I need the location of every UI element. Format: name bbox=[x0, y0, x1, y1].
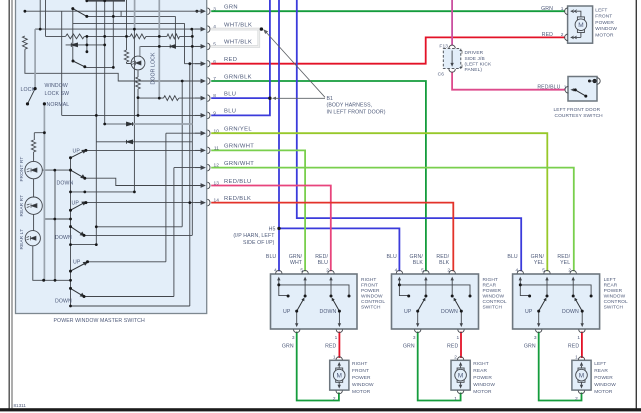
svg-text:81311: 81311 bbox=[14, 403, 27, 408]
node switch A up contact bbox=[84, 149, 87, 152]
svg-text:M: M bbox=[336, 372, 341, 379]
wire GRN pin3 to LF motor pin1 bbox=[211, 10, 565, 12]
svg-text:2: 2 bbox=[454, 355, 457, 361]
svg-text:SWITCH: SWITCH bbox=[604, 305, 624, 311]
switch arm UP bbox=[418, 300, 425, 312]
wire RED pin6 to LF motor pin2 bbox=[211, 37, 565, 63]
switch arm bbox=[575, 90, 586, 96]
svg-text:BLU: BLU bbox=[224, 109, 236, 115]
contact dots bbox=[588, 80, 591, 83]
wire vertical x104.7 bbox=[104, 1, 106, 124]
node pin3 row junctions bbox=[24, 10, 27, 13]
arrowheads down bbox=[295, 323, 341, 327]
svg-text:SIDE OF I/P): SIDE OF I/P) bbox=[243, 240, 275, 246]
svg-text:LEFT FRONT DOOR: LEFT FRONT DOOR bbox=[554, 107, 601, 113]
thick gray wire row y124 bbox=[105, 123, 193, 125]
pin 1 arc bbox=[565, 86, 568, 93]
node pin8 row junctions bbox=[137, 96, 140, 99]
motor M internal wiring bbox=[571, 11, 581, 37]
switch arm window-lock bbox=[28, 89, 36, 104]
svg-text:SWITCH: SWITCH bbox=[483, 305, 503, 311]
wire row y23.4 bbox=[73, 22, 185, 24]
diode D2 bbox=[170, 45, 175, 49]
LEFT FRONT POWER WINDOW MOTOR box bbox=[568, 6, 593, 43]
node pin4 row junctions bbox=[39, 28, 42, 31]
pin 14 arrow and arc bbox=[195, 202, 203, 204]
svg-text:(I/P HARN, LEFT: (I/P HARN, LEFT bbox=[233, 233, 275, 239]
wire circle chain x33.6 bbox=[34, 133, 45, 231]
resistor RA bbox=[66, 34, 85, 39]
wire GRN RR switch pin3 to RR motor pin1 bbox=[418, 332, 461, 401]
svg-text:REAR LT: REAR LT bbox=[19, 229, 25, 250]
wire GRN LR switch pin3 to LR motor pin2 bbox=[539, 332, 582, 401]
node switch B2 pivot and row227 junction bbox=[69, 225, 72, 228]
switch arm LF-up pivot column bbox=[72, 9, 74, 61]
svg-text:POWER: POWER bbox=[473, 375, 492, 381]
pin 7 arrow and arc bbox=[195, 80, 203, 82]
svg-text:REAR RT: REAR RT bbox=[19, 195, 25, 217]
pin arcs top bbox=[517, 270, 576, 273]
pin shafts bbox=[279, 280, 340, 325]
switch arm B up bbox=[71, 203, 84, 210]
diode D4 bbox=[127, 140, 133, 144]
svg-text:BLU: BLU bbox=[266, 254, 277, 260]
switch arm B down bbox=[71, 227, 82, 235]
power window master switch box bbox=[16, 0, 207, 314]
B1 arrow to BLU node bbox=[275, 97, 325, 99]
pin 1 arc bbox=[565, 8, 568, 15]
svg-text:RED: RED bbox=[447, 344, 458, 350]
wire stub x175.4 bbox=[174, 16, 176, 44]
wire GRN/YEL pin10 to LR switch pin5 bbox=[211, 133, 547, 271]
svg-text:POWER: POWER bbox=[352, 375, 371, 381]
wire left top corner bbox=[45, 0, 47, 36]
wire nub x86.9 bbox=[86, 36, 88, 51]
node switch C pivot bbox=[69, 270, 72, 273]
motor brushes bbox=[577, 17, 584, 20]
LED rear-lt bbox=[25, 231, 40, 246]
svg-text:WINDOW: WINDOW bbox=[352, 382, 374, 388]
svg-text:4: 4 bbox=[395, 268, 398, 274]
svg-text:3: 3 bbox=[534, 335, 537, 341]
wire row y226.8 bbox=[96, 81, 182, 227]
wire pin6 internal row bbox=[185, 23, 205, 63]
wire row y244.6 bbox=[71, 244, 97, 246]
arrowheads up bbox=[277, 277, 333, 281]
wire RED RF switch pin1 to RF motor pin1 bbox=[338, 332, 340, 358]
svg-text:BLK: BLK bbox=[413, 260, 424, 266]
arrow through J/B bbox=[451, 51, 453, 65]
svg-text:WINDOW: WINDOW bbox=[473, 382, 495, 388]
wire diode row y44.9 bbox=[66, 44, 105, 46]
svg-text:FRONT: FRONT bbox=[352, 368, 369, 374]
svg-text:MOTOR: MOTOR bbox=[352, 389, 371, 395]
wire circle3 row y280.3 bbox=[33, 246, 71, 281]
svg-text:WINDOW: WINDOW bbox=[361, 294, 383, 300]
svg-text:1: 1 bbox=[333, 355, 336, 361]
pin 2 arc bbox=[565, 34, 568, 41]
pin 1 arrows bbox=[571, 10, 577, 13]
pin 13 arrow and arc bbox=[195, 185, 203, 187]
wire GRN/WHT pin12 to LR switch pin2 bbox=[211, 168, 574, 272]
svg-text:2: 2 bbox=[561, 32, 564, 38]
RIGHT FRONT POWER WINDOW MOTOR box bbox=[330, 360, 349, 390]
node row191 junctions bbox=[69, 191, 72, 194]
svg-text:DOWN: DOWN bbox=[57, 181, 74, 187]
switch arm LF down bbox=[73, 61, 85, 67]
node resistor row junctions bbox=[86, 35, 89, 38]
resistor left of door-lock LED bbox=[124, 0, 131, 64]
arrow to pin 1 bbox=[572, 89, 575, 91]
node switch B pivot bbox=[69, 209, 72, 212]
node H5 junction on BLU bbox=[277, 227, 280, 230]
svg-text:1: 1 bbox=[454, 396, 457, 402]
svg-text:UP: UP bbox=[283, 309, 291, 315]
pin shafts bbox=[520, 280, 582, 325]
node switch C2 pivot and down contact bbox=[69, 287, 72, 290]
svg-text:RED: RED bbox=[568, 344, 579, 350]
resistor RG vertical bbox=[136, 71, 140, 116]
svg-text:B1: B1 bbox=[327, 96, 334, 102]
svg-text:GRN: GRN bbox=[403, 344, 415, 350]
svg-text:PANEL): PANEL) bbox=[465, 67, 483, 73]
pin 3 arrow and arc bbox=[195, 10, 203, 12]
svg-text:GRN/WHT: GRN/WHT bbox=[224, 144, 254, 150]
svg-text:UP: UP bbox=[72, 200, 80, 206]
node window lock switch points bbox=[34, 87, 37, 90]
svg-text:GRN: GRN bbox=[282, 344, 294, 350]
svg-text:M: M bbox=[458, 372, 463, 379]
wire pin4 internal row bbox=[35, 0, 204, 29]
wire pin13 internal step bbox=[85, 178, 205, 185]
arrowheads up bbox=[398, 277, 454, 281]
wire BLU vertical x269.9 to top bbox=[269, 0, 271, 115]
pin shafts bbox=[399, 280, 461, 325]
node normal-wire corner junction bbox=[43, 131, 46, 134]
svg-text:RIGHT: RIGHT bbox=[361, 277, 376, 283]
wire WHT/BLK pin4 run bbox=[211, 28, 261, 31]
wire RED RR switch pin1 to RR motor pin2 bbox=[460, 332, 462, 358]
wire RED/BLU C6 to courtesy switch pin1 bbox=[452, 72, 565, 90]
svg-text:DOWN: DOWN bbox=[55, 299, 72, 305]
svg-text:YEL: YEL bbox=[560, 260, 570, 266]
svg-text:M: M bbox=[578, 22, 583, 29]
svg-text:GRN/WHT: GRN/WHT bbox=[224, 161, 254, 167]
wire row y306 bbox=[71, 64, 190, 306]
node LED1 row junctions bbox=[53, 169, 56, 172]
pin 6 arrow and arc bbox=[195, 63, 203, 65]
switch arm DOWN bbox=[455, 300, 462, 312]
svg-text:GRN: GRN bbox=[524, 344, 536, 350]
svg-text:3: 3 bbox=[292, 335, 295, 341]
dots top rows bbox=[85, 0, 88, 2]
diode D1 bbox=[71, 43, 77, 47]
node row244 junctions bbox=[69, 243, 72, 246]
node switch A down contact bbox=[83, 177, 86, 180]
svg-text:2: 2 bbox=[568, 268, 571, 274]
svg-text:5: 5 bbox=[300, 268, 303, 274]
svg-text:1: 1 bbox=[564, 84, 567, 90]
page frame left line 2 bbox=[11, 0, 13, 409]
B1 arrow to WHT/BLK node bbox=[266, 32, 325, 97]
wire pin14 internal row bbox=[86, 202, 204, 204]
wire circle1 row y170 bbox=[43, 169, 71, 171]
resistor RF vertical bbox=[31, 140, 35, 152]
wire row y191.9 bbox=[71, 29, 135, 192]
wire BLU pin9 run bbox=[211, 114, 271, 116]
right pin arc bbox=[597, 78, 600, 85]
svg-text:4: 4 bbox=[516, 268, 519, 274]
pin 12 arrow and arc bbox=[195, 167, 203, 169]
svg-text:YEL: YEL bbox=[534, 260, 544, 266]
switch arm LF up bbox=[73, 9, 87, 17]
diode D3 bbox=[127, 122, 133, 126]
svg-text:WINDOW: WINDOW bbox=[45, 83, 68, 89]
wire contact row y16.5 bbox=[87, 11, 176, 16]
wire vertical x96.3 bbox=[95, 1, 97, 245]
svg-text:COURTESY SWITCH: COURTESY SWITCH bbox=[555, 113, 604, 119]
wire pin5 internal row bbox=[140, 45, 205, 47]
svg-text:GRN/BLK: GRN/BLK bbox=[224, 74, 252, 80]
pin F13 arc bbox=[449, 45, 455, 48]
wire pivot column x70.5 bbox=[70, 158, 72, 306]
wire contact row y67.4 bbox=[85, 1, 114, 68]
node switch B down contact bbox=[83, 234, 86, 237]
svg-text:1: 1 bbox=[575, 355, 578, 361]
pin 8 arrow and arc bbox=[195, 97, 203, 99]
svg-text:POWER: POWER bbox=[361, 288, 380, 294]
page frame bottom bar bbox=[0, 408, 641, 411]
wire row y296.5 bbox=[84, 296, 174, 298]
svg-text:BLU: BLU bbox=[507, 254, 518, 260]
svg-text:LEFT: LEFT bbox=[604, 277, 616, 283]
svg-text:MOTOR: MOTOR bbox=[473, 389, 492, 395]
svg-text:DOOR LOCK: DOOR LOCK bbox=[151, 52, 157, 84]
motor circle M bbox=[575, 19, 587, 31]
wire BLU pin8 run bbox=[211, 97, 269, 99]
arrowheads down bbox=[537, 323, 584, 327]
pin 10 arrow and arc bbox=[195, 132, 203, 134]
wire RED/BLK pin14 to RR switch pin2 bbox=[211, 203, 453, 272]
switch arm UP bbox=[297, 300, 304, 312]
node LED3 row junctions bbox=[42, 279, 45, 282]
pin arcs bottom bbox=[294, 329, 343, 332]
wire left loop y73.3 bbox=[25, 49, 205, 81]
pin 11 arrow and arc bbox=[195, 149, 203, 151]
arrowheads down bbox=[416, 323, 463, 327]
contact and pivot dots bbox=[398, 283, 401, 286]
svg-text:UP: UP bbox=[404, 309, 412, 315]
LEFT REAR POWER WINDOW CONTROL SWITCH box bbox=[513, 274, 600, 329]
svg-text:RED: RED bbox=[325, 344, 336, 350]
wire GRN/WHT pin11 to RF switch pin5 bbox=[211, 150, 305, 271]
node pin9 row junctions bbox=[95, 114, 98, 117]
svg-text:REAR: REAR bbox=[483, 283, 497, 289]
node row219 junctions bbox=[53, 218, 56, 221]
wire WHT/BLK pin5 run joining pin4 bbox=[211, 30, 259, 46]
internal rail bbox=[399, 285, 470, 296]
RIGHT REAR POWER WINDOW MOTOR box bbox=[451, 360, 470, 390]
thick gray wire LOCK bbox=[34, 29, 36, 89]
RIGHT FRONT POWER WINDOW CONTROL SWITCH box bbox=[271, 274, 358, 329]
arrowheads up bbox=[519, 277, 575, 281]
wire pin3 internal row bbox=[25, 10, 205, 12]
svg-text:REAR: REAR bbox=[604, 283, 618, 289]
wire RED LR switch pin1 to LR motor pin1 bbox=[581, 332, 583, 358]
svg-text:M: M bbox=[579, 372, 584, 379]
svg-text:RED: RED bbox=[224, 57, 237, 63]
svg-text:WINDOW: WINDOW bbox=[483, 294, 505, 300]
svg-text:LOCK: LOCK bbox=[21, 87, 36, 93]
svg-text:DRIVER: DRIVER bbox=[465, 50, 484, 56]
resistor RD bbox=[164, 96, 179, 101]
page frame right line bbox=[635, 0, 637, 409]
svg-text:LOCK SW: LOCK SW bbox=[45, 91, 70, 97]
switch arm A up bbox=[71, 151, 84, 158]
svg-text:POWER: POWER bbox=[604, 288, 623, 294]
resistor RB bbox=[130, 34, 146, 39]
svg-text:RED/BLK: RED/BLK bbox=[224, 196, 251, 202]
svg-text:2: 2 bbox=[575, 396, 578, 402]
svg-text:LEFT: LEFT bbox=[595, 7, 607, 13]
wire magenta F13 feed from top bbox=[451, 0, 453, 46]
svg-text:F13: F13 bbox=[439, 43, 448, 49]
resistor RC bbox=[167, 34, 180, 39]
svg-text:(LEFT KICK: (LEFT KICK bbox=[465, 61, 492, 67]
svg-text:C6: C6 bbox=[438, 72, 445, 78]
svg-text:POWER: POWER bbox=[594, 375, 613, 381]
svg-text:DOWN: DOWN bbox=[320, 309, 337, 315]
svg-text:UP: UP bbox=[73, 259, 81, 265]
svg-text:REAR: REAR bbox=[473, 368, 487, 374]
svg-text:1: 1 bbox=[335, 335, 338, 341]
switch arm UP bbox=[539, 300, 546, 312]
svg-text:CONTROL: CONTROL bbox=[483, 299, 507, 305]
svg-text:RIGHT: RIGHT bbox=[473, 361, 488, 367]
svg-text:WINDOW: WINDOW bbox=[595, 26, 617, 32]
LED rear-rt bbox=[25, 197, 42, 214]
svg-text:DOWN: DOWN bbox=[55, 235, 72, 241]
svg-text:LEFT: LEFT bbox=[594, 361, 606, 367]
node row306 junction bbox=[69, 305, 72, 308]
wire BLU vertical x279 to LF-door H5 and RF switch pin4 bbox=[278, 0, 280, 271]
svg-text:WHT/BLK: WHT/BLK bbox=[224, 40, 252, 46]
thick gray wire NORMAL bbox=[43, 104, 45, 280]
svg-text:BLU: BLU bbox=[318, 260, 329, 266]
pin arcs top bbox=[276, 270, 335, 273]
pin 2 arrows bbox=[571, 36, 577, 39]
wire pin11 internal row bbox=[86, 149, 204, 151]
pin 4 arrow and arc bbox=[195, 28, 203, 30]
svg-text:POWER WINDOW MASTER SWITCH: POWER WINDOW MASTER SWITCH bbox=[54, 318, 146, 324]
svg-text:GRN: GRN bbox=[541, 6, 553, 12]
svg-text:FRONT RT: FRONT RT bbox=[19, 157, 25, 182]
svg-text:RED/BLU: RED/BLU bbox=[224, 179, 252, 185]
thick gray wire vertical x134.6 bbox=[134, 0, 136, 29]
LEFT FRONT DOOR COURTESY SWITCH box bbox=[568, 77, 597, 102]
node LF-up switch contacts bbox=[71, 7, 74, 10]
svg-text:WHT/BLK: WHT/BLK bbox=[224, 22, 252, 28]
wire pin12 internal corner bbox=[88, 168, 205, 297]
node pin7 row junction bbox=[181, 80, 184, 83]
node B1 junction on BLU bbox=[268, 97, 271, 100]
svg-text:FRONT: FRONT bbox=[361, 283, 378, 289]
wire vertical to pin9 corner bbox=[61, 11, 63, 115]
pin 9 arrow and arc bbox=[195, 114, 203, 116]
node diode row junctions bbox=[86, 44, 89, 47]
svg-text:(BODY HARNESS,: (BODY HARNESS, bbox=[327, 103, 373, 109]
pin C6 arc bbox=[449, 69, 455, 72]
contact and pivot dots bbox=[519, 283, 522, 286]
svg-text:2: 2 bbox=[447, 268, 450, 274]
svg-text:DOWN: DOWN bbox=[562, 309, 579, 315]
svg-text:2: 2 bbox=[326, 268, 329, 274]
wire GRN/BLK pin7 to RR switch pin5 bbox=[211, 81, 426, 271]
wire RED/BLU pin13 to RF switch pin2 bbox=[211, 186, 331, 272]
pin arcs bottom bbox=[536, 329, 586, 332]
svg-text:REAR: REAR bbox=[594, 368, 608, 374]
svg-text:RED/BLU: RED/BLU bbox=[537, 84, 560, 90]
wire pin8 internal row with resistor bbox=[138, 97, 204, 99]
pin 5 arrow and arc bbox=[195, 45, 203, 47]
svg-text:H5: H5 bbox=[269, 226, 276, 232]
node gray row junction bbox=[103, 123, 106, 126]
thick gray wire vertical x159.3 bbox=[158, 0, 160, 98]
resistor RE vertical bbox=[23, 36, 28, 49]
svg-text:RIGHT: RIGHT bbox=[483, 277, 498, 283]
wire row y219 bbox=[44, 170, 70, 280]
wire BLU H5 branch to RR switch pin4 bbox=[279, 228, 399, 271]
svg-text:RED: RED bbox=[542, 32, 553, 38]
svg-text:3: 3 bbox=[413, 335, 416, 341]
svg-text:1: 1 bbox=[561, 6, 564, 12]
svg-text:4: 4 bbox=[274, 268, 277, 274]
wire row y141.8 bbox=[96, 141, 192, 143]
node switch A pivot bbox=[69, 156, 72, 159]
pin arcs bottom bbox=[415, 329, 465, 332]
svg-text:UP: UP bbox=[525, 309, 533, 315]
svg-text:SWITCH: SWITCH bbox=[361, 305, 381, 311]
svg-text:CONTROL: CONTROL bbox=[604, 299, 628, 305]
node pin6 row junction bbox=[188, 62, 191, 65]
svg-text:RIGHT: RIGHT bbox=[352, 361, 367, 367]
svg-text:FRONT: FRONT bbox=[595, 14, 612, 20]
LED front-rt bbox=[25, 161, 42, 178]
internal rail bbox=[520, 285, 591, 296]
svg-text:DOWN: DOWN bbox=[441, 309, 458, 315]
wire pin9 internal row bbox=[62, 114, 205, 116]
wire resistor row y36.4 bbox=[46, 35, 193, 37]
switch arm C up bbox=[71, 264, 85, 272]
pin arcs top bbox=[396, 270, 455, 273]
LED door lock bbox=[131, 56, 145, 70]
svg-text:BLK: BLK bbox=[439, 260, 450, 266]
RIGHT REAR POWER WINDOW CONTROL SWITCH box bbox=[392, 274, 479, 329]
svg-text:2: 2 bbox=[333, 396, 336, 402]
svg-text:SIDE J/B: SIDE J/B bbox=[465, 56, 485, 62]
contact and pivot dots bbox=[277, 283, 280, 286]
svg-text:IN LEFT FRONT DOOR): IN LEFT FRONT DOOR) bbox=[327, 109, 386, 115]
svg-text:POWER: POWER bbox=[595, 20, 614, 26]
wire pin10 internal corner bbox=[166, 133, 205, 262]
node switch B up contact and pin14 junction bbox=[84, 201, 87, 204]
svg-text:BLU: BLU bbox=[224, 91, 236, 97]
svg-text:GRN/YEL: GRN/YEL bbox=[224, 127, 252, 133]
svg-text:NORMAL: NORMAL bbox=[47, 102, 70, 108]
node switch C up contact bbox=[86, 260, 89, 263]
svg-text:MOTOR: MOTOR bbox=[595, 33, 614, 39]
wire BLU vertical x296.8 to LR switch pin4 bbox=[297, 0, 521, 271]
